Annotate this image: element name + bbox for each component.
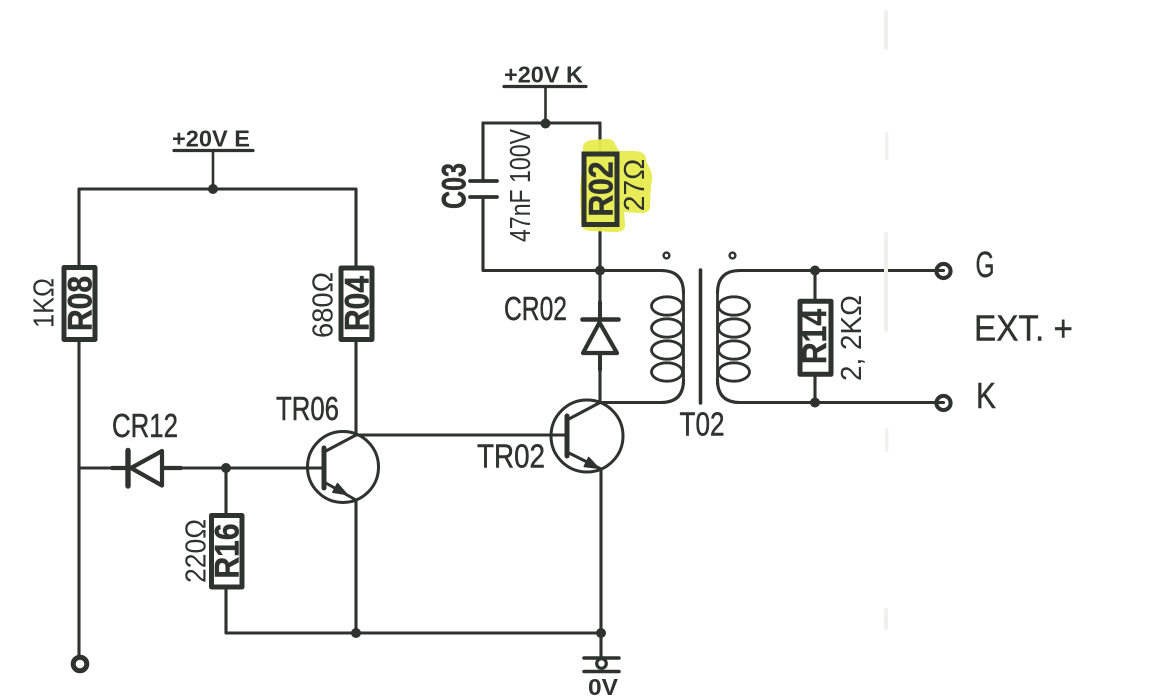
phase dot primary bbox=[664, 253, 670, 259]
wire C03 bottom lead bbox=[483, 197, 600, 271]
wire TR02 emitter down to ground rail bbox=[599, 469, 602, 633]
power +20V E bbox=[174, 151, 253, 190]
wire R04 bottom to TR06 collector corner bbox=[354, 342, 357, 435]
highlight marker yellow over R02 bbox=[580, 139, 652, 232]
transformer T02 core bbox=[699, 270, 703, 403]
wire R02 top lead bbox=[598, 123, 601, 151]
svg-text:R14: R14 bbox=[796, 309, 834, 364]
svg-text:+20V K: +20V K bbox=[504, 62, 583, 88]
node CR02 top junction bbox=[595, 266, 605, 276]
phase dot secondary bbox=[730, 253, 736, 259]
ground 0V symbol bbox=[584, 658, 619, 672]
svg-text:680Ω: 680Ω bbox=[308, 272, 340, 338]
wire secondary bottom lead to K bbox=[718, 380, 944, 403]
svg-text:T02: T02 bbox=[680, 406, 725, 443]
svg-text:K: K bbox=[976, 375, 996, 416]
transformer T02 primary winding bbox=[652, 293, 684, 384]
node base junction bbox=[221, 463, 231, 473]
svg-text:EXT. +: EXT. + bbox=[974, 308, 1073, 349]
svg-text:TR06: TR06 bbox=[276, 390, 339, 427]
terminal G bbox=[936, 264, 950, 278]
faint scan artifact column bbox=[884, 10, 889, 630]
svg-text:R04: R04 bbox=[339, 276, 377, 331]
wire CR02 anode to TR02 collector bbox=[598, 353, 601, 402]
wire to ground symbol bbox=[599, 633, 602, 657]
svg-text:G: G bbox=[976, 244, 995, 285]
wire R08 bottom to terminal bbox=[77, 342, 80, 655]
wire TR06 collector to TR02 base bbox=[356, 433, 567, 436]
resistor R04 bbox=[341, 268, 372, 340]
node +20V E junction bbox=[208, 184, 218, 194]
wire CR12 anode lead bbox=[79, 466, 126, 469]
terminal open circle bottom-left bbox=[73, 657, 87, 671]
transistor TR06 bbox=[308, 432, 379, 503]
svg-text:R16: R16 bbox=[209, 524, 247, 579]
svg-text:CR02: CR02 bbox=[504, 290, 567, 327]
node TR06 emitter junction bbox=[351, 628, 361, 638]
wire TR02 collector to transformer primary bottom bbox=[600, 380, 684, 403]
svg-text:+20V E: +20V E bbox=[172, 126, 250, 152]
resistor R16 bbox=[212, 516, 243, 588]
resistor R02 (over highlight) bbox=[584, 154, 617, 225]
svg-text:TR02: TR02 bbox=[477, 438, 545, 475]
wire CR02 cathode lead bbox=[598, 271, 601, 319]
svg-text:R08: R08 bbox=[62, 276, 100, 331]
node R14 top junction bbox=[810, 266, 820, 276]
wire left branch top: R08 top to R04 top via +20V E rail bbox=[79, 189, 356, 265]
transformer T02 secondary winding bbox=[718, 293, 750, 384]
wire R16 top lead bbox=[224, 468, 227, 513]
resistor R14 bbox=[800, 301, 831, 374]
diode CR02 bbox=[583, 302, 619, 370]
wire TR06 emitter down bbox=[354, 500, 357, 633]
resistor R08 bbox=[64, 268, 95, 340]
svg-text:1KΩ: 1KΩ bbox=[29, 278, 61, 328]
diode CR12 bbox=[112, 451, 181, 487]
wire C03 top lead bbox=[481, 123, 484, 181]
wire secondary top lead to G bbox=[718, 271, 944, 294]
node +20V K junction bbox=[541, 119, 551, 129]
power +20V K bbox=[504, 87, 586, 124]
svg-text:220Ω: 220Ω bbox=[181, 519, 213, 583]
wire primary top lead bbox=[600, 271, 684, 294]
svg-text:0V: 0V bbox=[588, 674, 618, 700]
wire CR12 to TR06 base bbox=[162, 466, 324, 469]
wire R16 bottom to emitter rail bbox=[226, 589, 601, 633]
node ground junction bbox=[596, 628, 606, 638]
svg-text:C03: C03 bbox=[436, 163, 474, 209]
node R14 bottom junction bbox=[810, 398, 820, 408]
wire R14 top lead bbox=[813, 271, 816, 302]
svg-text:2, 2KΩ: 2, 2KΩ bbox=[836, 295, 868, 381]
wire R14 bottom lead bbox=[813, 375, 816, 403]
capacitor C03 bbox=[470, 181, 497, 197]
svg-text:47nF 100V: 47nF 100V bbox=[505, 128, 537, 242]
svg-text:27Ω: 27Ω bbox=[619, 159, 651, 212]
transistor TR02 bbox=[551, 400, 623, 472]
wire +20V K rail bbox=[483, 121, 600, 124]
svg-text:R02: R02 bbox=[583, 162, 621, 217]
svg-text:CR12: CR12 bbox=[112, 407, 178, 444]
terminal K bbox=[936, 396, 950, 410]
wire R02 bottom lead bbox=[598, 227, 601, 271]
